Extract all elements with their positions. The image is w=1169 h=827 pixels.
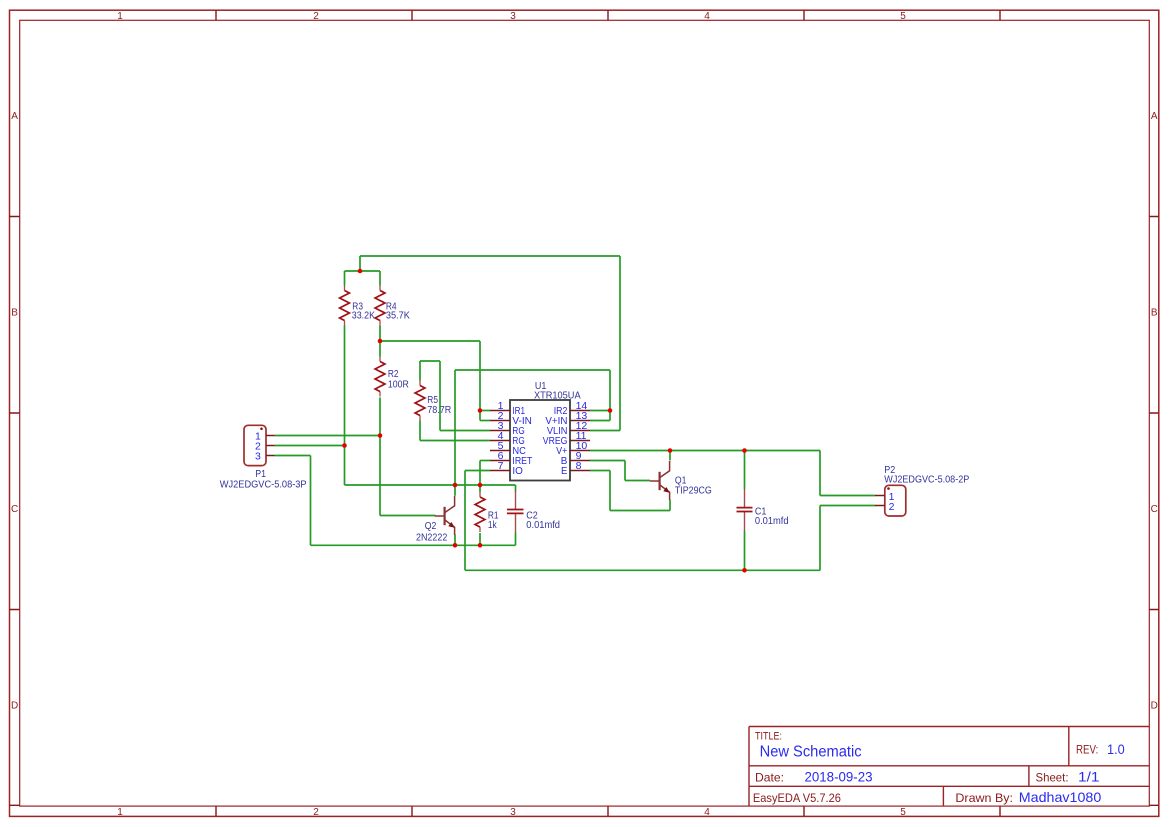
wire — [379, 436, 381, 516]
wire — [479, 461, 481, 493]
wire — [440, 430, 490, 432]
U1 pin numbers right (14-8) — [576, 400, 588, 472]
svg-text:2: 2 — [313, 11, 319, 22]
U1 pin numbers left (1-7) — [498, 400, 504, 472]
wire — [479, 533, 481, 545]
svg-text:3: 3 — [255, 450, 261, 462]
capacitor C2 — [515, 491, 517, 533]
wire — [590, 410, 610, 412]
wire — [609, 370, 611, 421]
wire junction — [478, 483, 483, 488]
wire junction — [378, 433, 383, 438]
svg-text:B: B — [1151, 308, 1158, 319]
svg-text:XTR105UA: XTR105UA — [534, 390, 581, 401]
wire — [454, 485, 456, 496]
svg-text:78.7R: 78.7R — [427, 405, 451, 416]
svg-text:C: C — [1151, 504, 1158, 515]
frame ruler letters right — [1151, 111, 1158, 712]
resistor R1 — [479, 492, 481, 532]
svg-text:New Schematic: New Schematic — [760, 743, 862, 760]
wire — [360, 255, 620, 257]
op-amp / IC U1 XTR105UA box — [510, 400, 570, 481]
wire junction — [453, 483, 458, 488]
wire — [625, 480, 650, 482]
svg-text:IO: IO — [512, 465, 523, 477]
wire — [344, 271, 346, 286]
svg-text:Date:: Date: — [755, 771, 784, 785]
resistor R2 — [379, 357, 381, 397]
wire — [310, 456, 312, 546]
wire — [669, 500, 671, 511]
wire — [479, 341, 481, 421]
resistor R5 — [419, 381, 421, 421]
wire — [515, 533, 517, 546]
wire junction — [478, 543, 483, 548]
wire — [619, 256, 621, 431]
wire — [480, 420, 490, 422]
wire — [480, 460, 490, 462]
svg-text:2N2222: 2N2222 — [416, 532, 447, 543]
wire — [380, 515, 436, 517]
svg-text:0.01mfd: 0.01mfd — [526, 520, 560, 531]
svg-text:100R: 100R — [388, 380, 409, 391]
svg-text:B: B — [11, 308, 18, 319]
wire — [669, 451, 671, 461]
svg-text:Drawn By:: Drawn By: — [955, 791, 1013, 805]
wire junction — [358, 269, 363, 274]
wire — [379, 271, 381, 286]
svg-text:Q2: Q2 — [425, 521, 437, 532]
svg-text:2: 2 — [889, 501, 895, 513]
wire — [464, 471, 466, 571]
frame ruler letters left — [11, 111, 18, 712]
wire — [624, 461, 626, 481]
svg-text:35.7K: 35.7K — [386, 311, 410, 322]
svg-text:0.01mfd: 0.01mfd — [755, 516, 789, 527]
wire — [311, 544, 516, 546]
frame ruler numbers bottom — [117, 807, 906, 818]
wire — [345, 270, 381, 272]
resistor R3 — [344, 286, 346, 326]
wire — [515, 485, 517, 492]
wire — [454, 370, 456, 485]
capacitor C1 — [744, 489, 746, 531]
svg-text:5: 5 — [900, 11, 906, 22]
wire — [345, 484, 516, 486]
transistor Q2 — [435, 496, 455, 535]
svg-text:C: C — [11, 504, 18, 515]
svg-text:A: A — [1151, 111, 1158, 122]
wire junction — [342, 443, 347, 448]
wire — [455, 369, 610, 371]
svg-text:E: E — [561, 465, 567, 477]
U1 pin names left — [512, 405, 532, 477]
wire — [275, 445, 345, 447]
svg-text:1: 1 — [117, 807, 123, 818]
svg-text:7: 7 — [498, 460, 504, 472]
P1 pin numbers — [255, 430, 261, 462]
svg-text:WJ2EDGVC-5.08-3P: WJ2EDGVC-5.08-3P — [220, 479, 307, 490]
wire — [610, 510, 670, 512]
svg-text:2: 2 — [313, 807, 319, 818]
wire — [465, 569, 820, 571]
wire — [359, 256, 361, 271]
wire — [465, 470, 490, 472]
wire — [454, 535, 456, 546]
P2 pin numbers — [889, 491, 895, 513]
svg-text:33.2K: 33.2K — [352, 311, 375, 322]
svg-text:EasyEDA V5.7.26: EasyEDA V5.7.26 — [753, 791, 841, 805]
wire — [820, 505, 875, 507]
svg-text:2018-09-23: 2018-09-23 — [805, 770, 873, 785]
U1 pin stubs — [490, 411, 590, 471]
wire — [380, 340, 480, 342]
svg-text:WJ2EDGVC-5.08-2P: WJ2EDGVC-5.08-2P — [884, 475, 969, 486]
wire junction — [668, 448, 673, 453]
svg-text:5: 5 — [900, 807, 906, 818]
svg-text:D: D — [1151, 701, 1158, 712]
wire — [819, 506, 821, 571]
wire — [590, 420, 610, 422]
wire — [820, 495, 875, 497]
resistor R4 — [379, 286, 381, 326]
svg-text:8: 8 — [576, 460, 582, 472]
wire junction — [608, 408, 613, 413]
svg-text:D: D — [11, 701, 18, 712]
U1 pin names right — [543, 405, 568, 477]
transistor Q1 — [650, 461, 670, 500]
wire junction — [742, 448, 747, 453]
wire junction — [742, 568, 747, 573]
svg-text:R2: R2 — [388, 369, 399, 380]
svg-text:3: 3 — [510, 11, 516, 22]
connector P2 — [885, 485, 906, 516]
wire — [819, 451, 821, 496]
wire — [275, 455, 311, 457]
wire — [480, 410, 490, 412]
svg-text:3: 3 — [510, 807, 516, 818]
wire — [379, 326, 381, 342]
wire — [379, 398, 381, 436]
wire — [419, 361, 421, 381]
wire — [590, 460, 625, 462]
svg-text:4: 4 — [704, 11, 710, 22]
wire — [419, 421, 421, 441]
wire — [420, 360, 440, 362]
wire junction — [453, 543, 458, 548]
wire — [590, 450, 820, 452]
wire — [744, 531, 746, 570]
svg-text:1k: 1k — [488, 520, 497, 531]
svg-text:REV:: REV: — [1076, 743, 1098, 757]
connector P1 — [244, 425, 266, 465]
svg-text:TITLE:: TITLE: — [755, 731, 782, 743]
svg-text:4: 4 — [704, 807, 710, 818]
svg-text:A: A — [11, 111, 18, 122]
title block — [749, 727, 1149, 807]
wire — [744, 451, 746, 490]
wire — [420, 440, 490, 442]
svg-text:Sheet:: Sheet: — [1036, 771, 1069, 785]
wire — [590, 470, 610, 472]
svg-text:1.0: 1.0 — [1107, 742, 1125, 757]
wire — [379, 341, 381, 357]
wire junction — [378, 339, 383, 344]
wire — [439, 361, 441, 431]
wire — [590, 430, 620, 432]
svg-text:Madhav1080: Madhav1080 — [1019, 789, 1102, 805]
wire — [609, 471, 611, 511]
wire junction — [478, 408, 483, 413]
wire — [275, 435, 381, 437]
svg-text:1/1: 1/1 — [1078, 769, 1100, 785]
svg-text:1: 1 — [117, 11, 123, 22]
svg-text:TIP29CG: TIP29CG — [675, 486, 712, 497]
wire — [344, 326, 346, 486]
frame ruler numbers top — [117, 11, 906, 22]
